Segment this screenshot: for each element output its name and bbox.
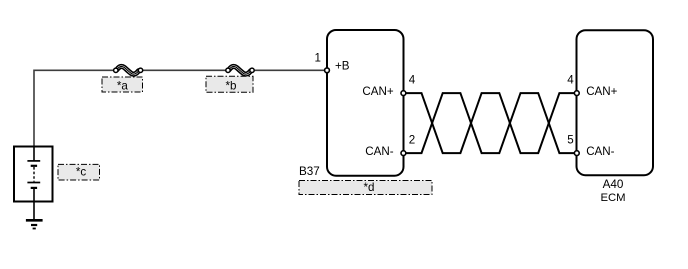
svg-text:*b: *b: [226, 80, 237, 93]
svg-text:5: 5: [567, 134, 573, 147]
label box *d: [299, 181, 432, 195]
wire between fuse *a and fuse *b: [143, 69, 226, 71]
svg-text:CAN-: CAN-: [586, 145, 614, 158]
svg-text:4: 4: [409, 73, 416, 86]
svg-text:CAN-: CAN-: [365, 145, 393, 158]
pin 5 of A40: [574, 151, 579, 156]
svg-text:1: 1: [315, 52, 321, 65]
pin 2 of B37: [401, 151, 406, 156]
battery internal lead top: [33, 147, 35, 162]
twisted pair wire B (CAN-): [406, 93, 575, 153]
wire from battery to fuse *a: [34, 70, 113, 146]
battery plate long 1: [27, 160, 40, 162]
ground: [26, 220, 43, 228]
svg-text:+B: +B: [335, 60, 350, 73]
battery plate short 1: [31, 165, 37, 167]
ECU block A40: [577, 30, 654, 175]
twisted pair wire A (CAN+): [406, 93, 575, 153]
fuse *b: [226, 66, 254, 74]
svg-text:CAN+: CAN+: [362, 85, 393, 98]
svg-text:CAN+: CAN+: [586, 85, 617, 98]
pin 4 of A40: [574, 91, 579, 96]
fuse *a: [114, 66, 143, 74]
battery internal lead bottom / wire to ground: [33, 188, 35, 220]
svg-text:*a: *a: [117, 80, 129, 93]
svg-text:2: 2: [409, 133, 415, 146]
svg-text:4: 4: [567, 73, 574, 86]
label box *b: [206, 76, 253, 92]
label box *a: [102, 77, 143, 93]
battery plate short 2: [31, 187, 37, 189]
pin 1 of B37: [325, 68, 330, 73]
wire from fuse *b to B37 pin 1: [255, 69, 325, 71]
pin 4 of B37: [401, 91, 406, 96]
svg-text:*c: *c: [76, 166, 87, 179]
battery (box): [14, 147, 53, 202]
svg-text:A40: A40: [603, 178, 624, 191]
battery dashed cell link: [33, 167, 35, 182]
junction block B37: [327, 30, 404, 176]
label box *c: [58, 164, 100, 180]
battery plate long 2: [27, 182, 40, 184]
svg-text:B37: B37: [299, 165, 320, 178]
svg-text:*d: *d: [364, 181, 375, 194]
svg-text:ECM: ECM: [600, 192, 625, 204]
